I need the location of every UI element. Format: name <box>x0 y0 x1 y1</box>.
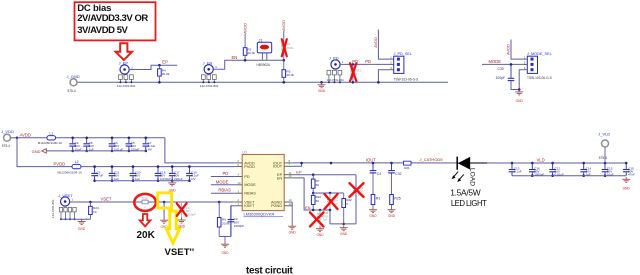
svg-text:LOAD: LOAD <box>468 168 475 186</box>
svg-text:L1: L1 <box>50 131 54 135</box>
svg-text:AVDD: AVDD <box>506 44 511 55</box>
svg-text:GND: GND <box>369 214 377 218</box>
svg-text:EP: EP <box>162 60 168 65</box>
svg-text:1.5A/5W: 1.5A/5W <box>450 188 480 198</box>
svg-text:PD: PD <box>244 174 250 179</box>
svg-text:J_VDD: J_VDD <box>1 129 14 134</box>
svg-text:GND: GND <box>78 227 86 231</box>
svg-text:J_EP: J_EP <box>119 61 129 66</box>
svg-text:M11206K310R-10: M11206K310R-10 <box>38 141 62 145</box>
svg-text:GND: GND <box>623 187 631 191</box>
svg-text:EN: EN <box>232 55 238 60</box>
svg-text:J_VLD: J_VLD <box>598 132 610 137</box>
svg-text:MODE: MODE <box>216 179 229 184</box>
svg-text:IOUT: IOUT <box>366 158 376 163</box>
svg-text:C32: C32 <box>395 172 401 176</box>
svg-text:13: 13 <box>289 198 292 202</box>
svg-text:J_PD_SEL: J_PD_SEL <box>394 52 413 56</box>
svg-text:MODE: MODE <box>489 59 502 64</box>
svg-text:GND: GND <box>178 224 186 228</box>
svg-text:VLD: VLD <box>537 158 545 163</box>
svg-text:0.1uF: 0.1uF <box>514 170 522 174</box>
svg-text:C30: C30 <box>498 67 504 71</box>
svg-text:GND: GND <box>340 232 348 236</box>
svg-text:12: 12 <box>289 202 292 206</box>
svg-text:EP: EP <box>296 169 302 174</box>
svg-text:HV: HV <box>191 177 195 181</box>
svg-text:AVDD: AVDD <box>242 23 247 34</box>
svg-text:GND: GND <box>289 231 297 235</box>
svg-text:20.0k: 20.0k <box>286 46 294 50</box>
svg-text:PVDD: PVDD <box>54 161 66 166</box>
svg-text:HB0902U: HB0902U <box>257 63 272 67</box>
svg-text:10: 10 <box>93 210 97 214</box>
svg-text:J_GND: J_GND <box>67 74 80 79</box>
svg-text:VSET: VSET <box>101 197 112 202</box>
svg-text:test circuit: test circuit <box>246 266 294 275</box>
svg-text:10: 10 <box>238 181 241 185</box>
svg-text:PD: PD <box>223 171 229 176</box>
svg-text:2V/AVDD3.3V OR: 2V/AVDD3.3V OR <box>77 13 148 24</box>
svg-text:GND: GND <box>32 149 41 154</box>
svg-text:VSET'': VSET'' <box>165 247 195 258</box>
svg-text:GND: GND <box>516 99 524 103</box>
svg-text:20.0k: 20.0k <box>286 73 294 77</box>
svg-text:U1: U1 <box>242 150 247 154</box>
svg-text:PVDD: PVDD <box>244 164 255 169</box>
svg-text:R1: R1 <box>376 197 380 201</box>
svg-text:142-0701-801: 142-0701-801 <box>326 78 344 82</box>
svg-text:1000pF: 1000pF <box>234 224 245 228</box>
svg-text:R21: R21 <box>404 166 410 170</box>
svg-text:1uF: 1uF <box>323 218 328 222</box>
svg-text:GND: GND <box>318 89 326 93</box>
svg-text:142-0701-801: 142-0701-801 <box>117 84 136 88</box>
svg-text:J_EN: J_EN <box>203 60 213 65</box>
svg-text:AVDD: AVDD <box>281 20 286 31</box>
svg-text:MODE: MODE <box>244 182 256 187</box>
svg-text:M11206K310R-10: M11206K310R-10 <box>58 170 82 174</box>
svg-text:HV: HV <box>148 147 152 151</box>
svg-text:RBIAS: RBIAS <box>218 188 231 193</box>
svg-text:GND: GND <box>221 251 229 255</box>
svg-text:IOUT: IOUT <box>273 164 283 169</box>
svg-text:LM36300QDVKR: LM36300QDVKR <box>244 212 275 217</box>
svg-text:LED LIGHT: LED LIGHT <box>451 199 487 208</box>
svg-text:RBIAS: RBIAS <box>244 191 256 196</box>
svg-text:575-4: 575-4 <box>599 156 607 160</box>
svg-text:GND: GND <box>316 233 324 237</box>
svg-text:20K: 20K <box>137 230 156 241</box>
svg-text:3V/AVDD 5V: 3V/AVDD 5V <box>77 25 128 36</box>
svg-text:J1: J1 <box>259 38 263 42</box>
svg-text:PD: PD <box>365 59 371 64</box>
svg-text:J_PD: J_PD <box>329 55 339 60</box>
svg-text:47uF: 47uF <box>628 173 635 177</box>
svg-text:100pF: 100pF <box>496 76 506 80</box>
svg-text:50: 50 <box>316 183 320 187</box>
svg-text:R25: R25 <box>394 197 400 201</box>
svg-text:142-0701-801: 142-0701-801 <box>200 84 219 88</box>
svg-text:GND: GND <box>388 214 396 218</box>
svg-text:TSW-103-06-G-S: TSW-103-06-G-S <box>394 77 419 81</box>
svg-text:20.0k: 20.0k <box>162 72 170 76</box>
svg-text:J_CATHODE: J_CATHODE <box>420 157 444 162</box>
svg-text:J_MODE_SEL: J_MODE_SEL <box>527 52 552 56</box>
svg-text:R26: R26 <box>142 196 148 200</box>
svg-text:575-4: 575-4 <box>68 89 76 93</box>
svg-text:20.0k: 20.0k <box>247 51 255 55</box>
svg-text:50: 50 <box>316 199 320 203</box>
svg-text:EN: EN <box>305 205 311 210</box>
svg-text:TSW-103-06-G-S: TSW-103-06-G-S <box>527 76 552 80</box>
svg-text:AVDD: AVDD <box>373 37 378 48</box>
svg-text:16: 16 <box>289 174 292 178</box>
svg-text:AVDD: AVDD <box>20 132 31 137</box>
svg-text:KSET: KSET <box>244 203 255 208</box>
svg-text:L2: L2 <box>75 160 79 164</box>
svg-text:PGND: PGND <box>271 203 282 208</box>
svg-text:47uF: 47uF <box>97 174 104 178</box>
svg-text:C4: C4 <box>377 172 381 176</box>
svg-text:575-4: 575-4 <box>2 144 10 148</box>
svg-text:EN: EN <box>277 175 283 180</box>
svg-text:142-0701-801: 142-0701-801 <box>51 199 55 218</box>
